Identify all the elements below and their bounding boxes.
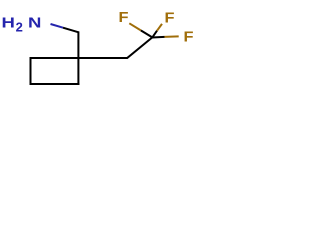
wire C-F3 bond black half — [152, 36, 164, 39]
wire N-CH2 bond (black half) — [63, 28, 79, 33]
wire CH2-ring vertical bond + ring right edge — [77, 31, 79, 85]
wire C-F2 bond gold half — [157, 24, 162, 31]
node H2N amine label — [2, 15, 42, 35]
svg-text:F: F — [184, 29, 194, 46]
wire ring top edge + bond to CH2 — [31, 57, 128, 59]
wire C-F3 bond gold half — [165, 35, 179, 38]
wire ring left edge — [30, 57, 32, 85]
svg-text:F: F — [165, 9, 175, 26]
svg-text:2: 2 — [16, 20, 23, 35]
svg-text:N: N — [28, 15, 41, 32]
wire CH2-CF3 diagonal bond — [127, 37, 153, 58]
svg-text:H: H — [2, 15, 15, 32]
wire C-F1 bond gold half — [129, 23, 141, 30]
svg-text:F: F — [119, 9, 129, 26]
wire ring bottom edge — [30, 83, 80, 85]
wire N-CH2 bond (blue half) — [51, 24, 64, 28]
wire C-F1 bond black half — [141, 30, 153, 37]
wire C-F2 bond black half — [152, 31, 157, 38]
